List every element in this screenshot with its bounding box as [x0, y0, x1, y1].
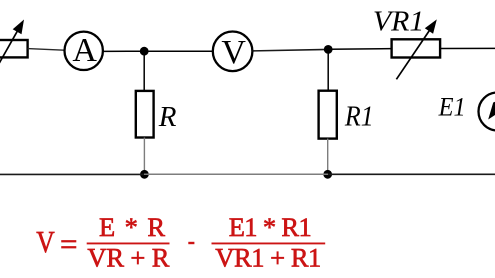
wire	[440, 47, 495, 49]
node junction 2	[324, 45, 333, 54]
svg-text:R1: R1	[344, 101, 374, 133]
wire junction2 to R1	[327, 49, 329, 91]
formula minus	[188, 242, 194, 244]
svg-text:E * R: E * R	[99, 212, 165, 242]
wire junction1 to R	[143, 51, 145, 91]
variable resistor VR1	[392, 19, 441, 79]
bottom rail wire middle (gray)	[144, 173, 328, 175]
wire	[28, 49, 64, 51]
wire R to bottom rail (gray)	[143, 138, 145, 175]
svg-text:V: V	[221, 34, 246, 71]
wire	[252, 49, 328, 51]
svg-text:R: R	[158, 101, 177, 133]
svg-text:E1 * R1: E1 * R1	[229, 212, 312, 242]
wire	[144, 50, 213, 52]
formula fraction 1 bar	[87, 242, 170, 244]
svg-text:=: =	[60, 227, 77, 262]
wire	[104, 50, 141, 52]
node bottom junction 1	[140, 170, 149, 179]
svg-text:E1: E1	[438, 93, 466, 122]
svg-text:VR + R: VR + R	[87, 242, 169, 272]
formula V = E*R/(VR+R) - E1*R1/(VR1+R1)	[36, 212, 325, 273]
node bottom junction 2	[323, 170, 332, 179]
formula fraction 2 bar	[212, 242, 326, 244]
resistor R1	[319, 91, 337, 139]
svg-text:VR1 + R1: VR1 + R1	[215, 242, 321, 272]
svg-text:V: V	[36, 224, 55, 259]
svg-text:A: A	[72, 32, 97, 69]
wire	[328, 48, 391, 51]
source E1 (cut off at right edge)	[479, 93, 495, 131]
variable resistor VR (cut off at left edge)	[0, 20, 28, 80]
voltmeter V	[213, 32, 253, 72]
svg-text:VR1: VR1	[373, 6, 425, 38]
node junction 1	[140, 47, 149, 56]
ammeter A	[65, 32, 103, 70]
resistor R	[136, 91, 154, 138]
wire R1 to bottom rail (gray)	[327, 139, 329, 175]
bottom rail wire left	[0, 173, 144, 175]
bottom rail wire right	[328, 173, 495, 175]
